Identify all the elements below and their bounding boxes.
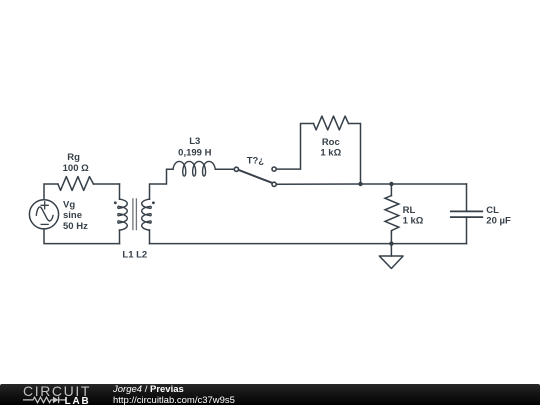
switch SW1 blade xyxy=(239,170,271,182)
footer text jorge4 / Previas xyxy=(113,385,184,395)
wire secondary top jog to L3 xyxy=(150,169,174,199)
voltage source V1 (Vg) xyxy=(29,200,58,229)
label Vg sine 50 Hz xyxy=(63,200,88,232)
svg-text:CL: CL xyxy=(486,205,499,216)
svg-text:LAB: LAB xyxy=(65,396,91,405)
switch SW1 throw down terminal xyxy=(272,182,276,186)
junction node RL top xyxy=(389,182,393,186)
transformer T1 primary winding L1 xyxy=(118,199,128,230)
switch SW1 throw up terminal xyxy=(272,167,276,171)
svg-text:1 kΩ: 1 kΩ xyxy=(320,148,341,159)
resistor RL xyxy=(385,196,399,232)
resistor Rg xyxy=(58,177,94,191)
label CL 20 uF xyxy=(486,205,511,227)
wire transformer primary top lead xyxy=(119,184,121,199)
wire transformer primary bottom lead xyxy=(119,230,121,244)
svg-text:sine: sine xyxy=(63,210,82,221)
footer bar xyxy=(0,384,540,405)
wire Vg top to Rg xyxy=(44,184,58,200)
wire primary bottom rail xyxy=(44,229,120,244)
junction node Roc/main xyxy=(358,182,362,186)
label Rg 100 Ohm xyxy=(63,152,89,174)
CircuitLab logo xyxy=(0,384,110,405)
wire L3 to switch xyxy=(215,168,233,170)
resistor Roc xyxy=(314,116,349,130)
svg-text:L3: L3 xyxy=(189,136,200,147)
svg-text:T?¿: T?¿ xyxy=(247,156,265,167)
ground GND xyxy=(379,256,403,269)
svg-text:20 µF: 20 µF xyxy=(486,216,511,227)
label L3 0,199 H xyxy=(178,136,211,159)
transformer phasing dot left xyxy=(114,201,117,204)
switch SW1 common terminal xyxy=(234,167,238,171)
svg-text:0,199 H: 0,199 H xyxy=(178,148,211,159)
wire capacitor bottom lead xyxy=(466,217,468,244)
wire ground stub xyxy=(390,244,392,256)
label RL 1 kOhm xyxy=(403,205,424,227)
junction node RL bottom xyxy=(389,241,393,245)
wire Rg to transformer primary xyxy=(94,183,120,185)
svg-text:100 Ω: 100 Ω xyxy=(63,163,89,174)
footer text url xyxy=(113,396,235,405)
inductor L3 xyxy=(173,161,215,176)
wire switch bottom throw main line xyxy=(277,183,467,185)
wire top line to capacitor xyxy=(466,184,468,211)
wire RL top lead xyxy=(390,184,392,196)
wire RL bottom lead xyxy=(390,232,392,244)
capacitor CL xyxy=(451,211,483,217)
transformer T1 secondary winding L2 xyxy=(142,199,152,230)
label Roc 1 kOhm xyxy=(320,137,341,159)
svg-text:RL: RL xyxy=(403,205,416,216)
svg-text:1 kΩ: 1 kΩ xyxy=(403,216,424,227)
svg-text:Roc: Roc xyxy=(322,137,340,148)
wire transformer secondary bottom lead xyxy=(149,230,151,244)
transformer core xyxy=(133,199,137,230)
transformer phasing dot right xyxy=(152,201,155,204)
wire switch top throw to Roc branch xyxy=(277,124,314,170)
svg-text:50 Hz: 50 Hz xyxy=(63,221,88,232)
svg-text:Rg: Rg xyxy=(67,152,80,163)
svg-text:Vg: Vg xyxy=(63,200,75,211)
logo diode xyxy=(53,397,59,404)
logo wire left xyxy=(23,397,53,403)
wire bottom rail xyxy=(150,243,467,245)
wire Roc to main node xyxy=(349,124,361,185)
svg-text:L1 L2: L1 L2 xyxy=(122,250,147,261)
